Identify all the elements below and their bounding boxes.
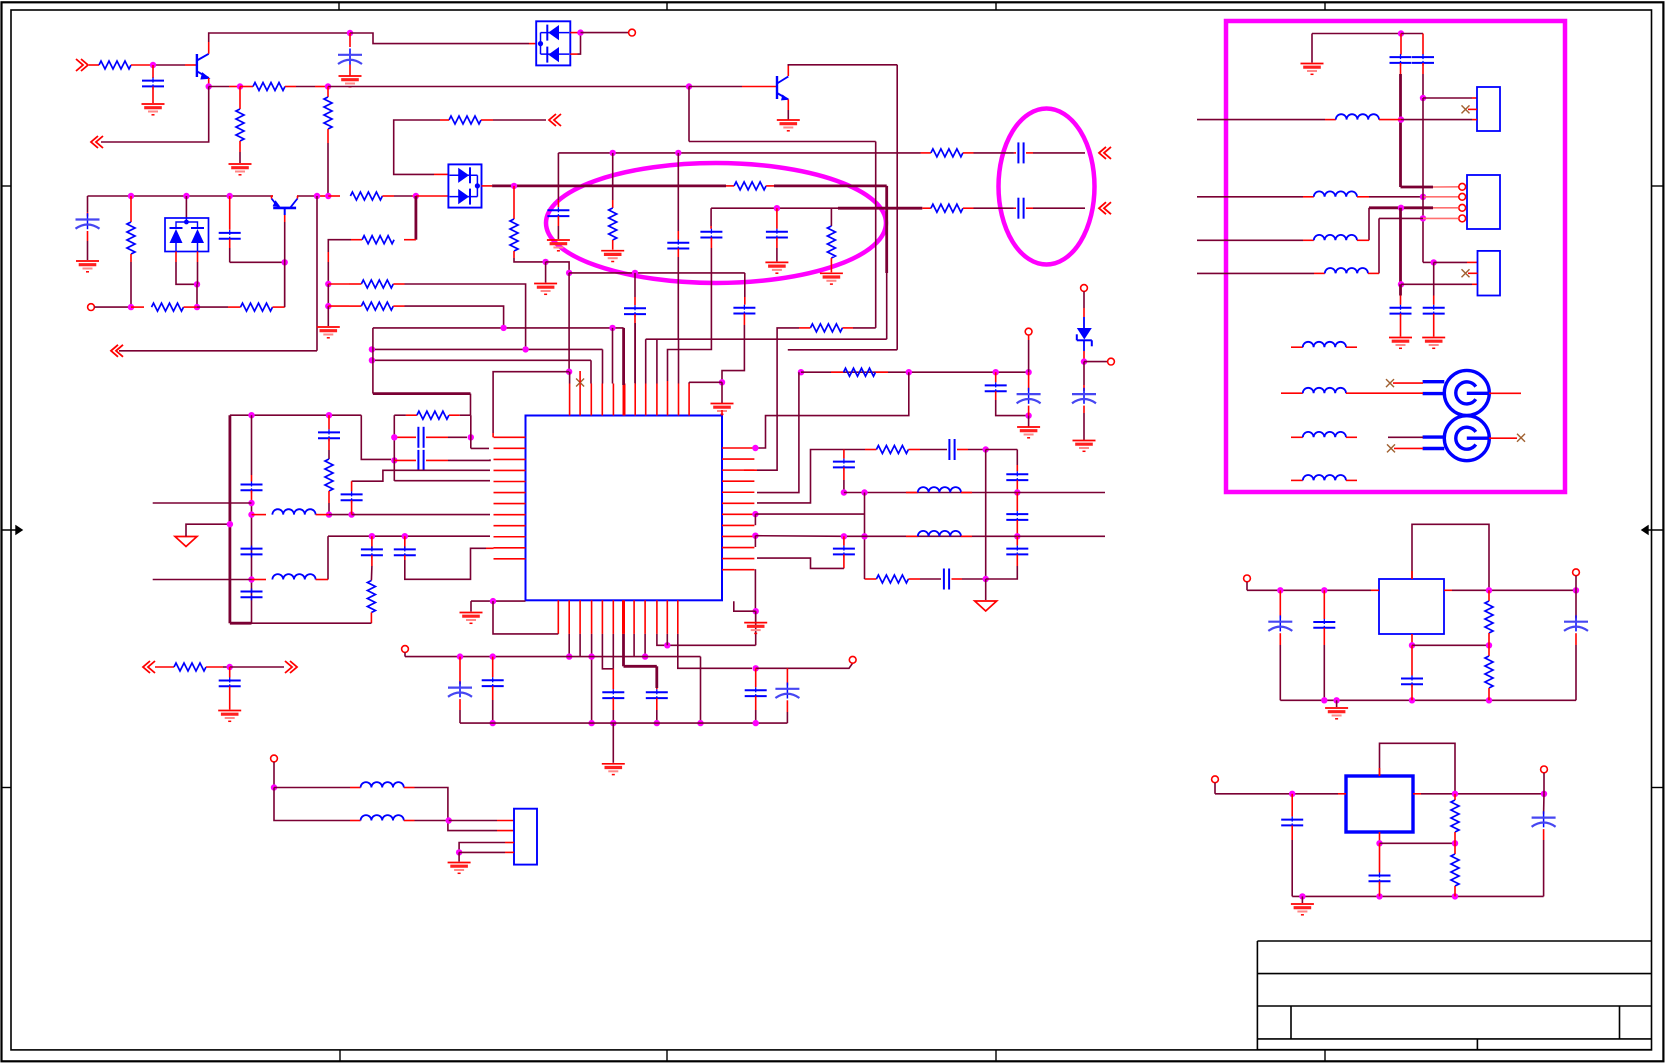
lead [1543,829,1545,840]
lead [328,195,340,197]
transistor Q2 NPN [776,76,778,99]
wire [1433,262,1435,295]
lead [1357,239,1369,241]
wire rail y=415.2 [230,414,361,416]
ground [1291,903,1314,905]
junction [446,817,452,823]
junction [719,379,725,385]
lead C2 top [349,33,351,47]
inductor L4 [272,574,315,579]
capacitor C5 [624,307,646,309]
lead U1 right pin 11 [722,558,754,560]
wire thick x=229.9 [228,415,231,623]
wire [328,450,330,459]
pin pad [629,29,636,36]
wire [1434,261,1467,263]
junction [753,665,759,671]
resistor R28 [1451,800,1459,832]
lead [1433,186,1459,188]
capacitor C3 polarized [87,213,89,229]
lead [876,371,889,373]
wire [1422,74,1424,98]
capacitor C27 [1006,473,1028,475]
wire gnd stem [545,262,547,283]
wire pin9 col [656,339,658,383]
wire to pin8 [352,514,490,516]
junction [1541,791,1547,797]
lead [350,787,361,789]
wire [710,208,712,226]
junction [490,598,496,604]
lead [1423,217,1459,219]
capacitor C28 [833,461,855,463]
capacitor C9 [547,209,569,211]
lead [1083,308,1085,317]
lead [1472,97,1477,99]
lead [1281,392,1303,394]
lead [755,696,757,710]
junction [248,412,254,418]
wire channel1 [844,492,1105,494]
lead [1323,590,1325,619]
lead [349,283,361,285]
lead [957,449,968,451]
wire [986,449,1018,451]
lead [513,251,515,258]
lead [1083,385,1085,391]
border arrow left [2,526,23,534]
junction [325,193,331,199]
lead [961,492,972,494]
junction [391,434,397,440]
lead [185,64,196,66]
wire pin12 col [688,382,690,383]
lead [1016,493,1018,512]
connector J1 [514,809,537,865]
wire [329,514,352,516]
lead [370,613,372,624]
junction [753,720,759,726]
lead U1 bottom pin 3 [579,600,581,634]
wire [394,120,440,174]
wire pin B12 [678,634,752,668]
wire [612,153,614,200]
junction [753,608,759,614]
ground [602,763,625,765]
junction [1014,533,1020,539]
wire [284,262,286,307]
junction [686,83,692,89]
lead U1 bottom pin 12 [677,600,679,634]
border tick top 4 [1324,3,1326,11]
wire Q3 base [284,222,286,262]
wire pin R1 net [758,372,909,448]
diode pack D2 internal wiring [176,222,198,228]
lead [921,152,931,154]
wire [87,241,89,260]
capacitor C23 [985,384,1007,386]
lead [1279,590,1281,618]
lead U1 right pin 6 [722,502,754,504]
wire pin R6 [757,450,865,503]
lead U1 left pin 11 [494,547,526,549]
resistor R7 [127,222,135,254]
resistor R30 [734,182,766,190]
lead [426,436,448,438]
junction [1376,840,1382,846]
junction [654,720,660,726]
coil T1 stubs [1423,380,1445,383]
lead U1 top corner pin [721,410,723,416]
wire [471,447,489,449]
lead pin [492,433,494,437]
wire to pin route [757,328,799,470]
lead [1016,555,1018,567]
lead U1 top pin 6 [623,384,625,416]
lead [1279,633,1281,645]
lead [743,314,745,325]
wire D1 out bottom [578,36,581,55]
lead [1400,63,1402,74]
wire thick x=1401 upper [1399,74,1402,187]
resistor R3 [236,109,244,141]
capacitor C10 [667,242,689,244]
lead [656,688,658,689]
resistor R14 [510,219,518,251]
wire [1401,119,1472,121]
inductor L5 [918,487,961,492]
capacitor C44 [1313,621,1335,623]
lead [229,86,240,88]
lead [1400,314,1402,337]
capacitor C2 polarized [349,49,351,65]
lead U1 top pin 9 [656,384,658,416]
lead [1488,688,1490,700]
wire row B [405,306,504,328]
wire [1311,34,1313,63]
lead [1444,589,1452,591]
lead C2 bottom [349,65,351,76]
wire thick corner to x=251.5 [230,622,252,625]
wire [734,601,756,611]
wire x=875.7 down [875,142,877,328]
junction [1333,697,1339,703]
wire [274,787,350,789]
inductor L7 [361,782,404,787]
pin pad [271,755,278,762]
junction [369,346,375,352]
junction [457,653,463,659]
capacitor C6 [733,307,755,309]
resistor R13 [241,303,273,311]
wire collector rail [209,33,350,42]
wire [1033,152,1085,154]
wire thick pin B7 [622,634,625,666]
wire [327,143,329,193]
lead [710,226,712,229]
capacitor C21 [394,548,416,550]
wire y=536.2 [328,535,490,537]
coil T2 stubs [1423,435,1445,438]
pin pad [1081,285,1088,292]
IC U1 [526,416,723,601]
lead [315,195,328,197]
wire [1365,392,1423,394]
lead [184,306,198,308]
wire [230,666,284,668]
connector P5 << [111,345,118,357]
junction [326,412,332,418]
ground [777,119,800,121]
resistor R10 [361,280,393,288]
lead [1016,520,1018,536]
junction [588,653,594,659]
wire [986,566,1018,579]
resistor R23 [844,368,876,376]
lead [252,579,267,581]
wire [1084,361,1107,363]
ground [339,75,362,77]
lead [315,86,328,88]
lead U1 left pin 7 [494,503,526,505]
wire [864,578,867,580]
lead Q3 e [272,196,274,199]
lead U1 left pin 6 [494,492,526,494]
wire [1543,773,1545,794]
diode pack D3 internal wiring [450,174,478,176]
wire [470,601,472,611]
ground [1422,337,1445,339]
pin pad [1025,328,1032,335]
wire [361,415,391,459]
junction [1025,369,1031,375]
lead [1083,406,1085,413]
inductor L15 [1303,432,1346,437]
wire [612,710,614,723]
capacitor C26 series [948,439,950,460]
connector P9 >> [290,661,297,673]
lead [406,414,417,416]
border tick bottom 4 [1324,1050,1326,1061]
lead [1433,314,1435,337]
wire [186,524,230,536]
junction [1376,893,1382,899]
wire [251,415,253,475]
lead [952,578,963,580]
lead [131,306,144,308]
wire [962,578,986,580]
lead U1 top pin 3 [590,384,592,416]
diode pack D1 internal wiring [541,32,570,34]
wire [1197,119,1325,121]
lead [1346,436,1357,438]
connector P8 << [143,661,150,673]
lead [1346,392,1365,394]
junction [500,325,506,331]
lead [1346,346,1357,348]
lead [229,196,231,230]
wire [920,578,941,580]
wire [493,601,558,634]
capacitor C13 series [417,427,419,448]
lead [865,449,876,451]
wire [546,262,570,273]
junction [632,270,638,276]
junction [1409,697,1415,703]
lead [1291,794,1293,817]
resistor R21 [367,581,375,613]
pin pad [1573,569,1580,576]
capacitor C12 [766,231,788,233]
diode pack D3 dual right [448,164,481,207]
wire [755,710,757,723]
diode pack D1 dual left [536,21,570,65]
lead [744,297,746,305]
wire [1197,196,1303,198]
lead [1422,63,1424,74]
lead [1488,633,1490,645]
wire pin1 column [569,372,571,384]
lead [634,314,636,323]
wire [1368,208,1370,241]
wire x=328 seg [327,536,329,579]
inductor L12 [1325,268,1368,273]
wire [1393,382,1423,384]
wire pin3 column [590,360,592,383]
resistor R12 [152,303,184,311]
lead [1423,196,1459,198]
lead [1026,152,1033,154]
lead [1454,843,1456,854]
junction [675,150,681,156]
highlight ellipse E1 [546,163,886,283]
lead [1357,196,1369,198]
resistor R20 [325,459,333,491]
title block [1257,940,1651,942]
lead [557,216,559,226]
connector P1 input >> [81,59,88,71]
junction [194,281,200,287]
lead U1 right pin 4 [722,480,754,482]
junction [752,511,758,517]
wire [1575,645,1577,700]
lead [677,249,679,257]
junction [369,357,375,363]
wire [721,382,723,403]
lead Q2 emitter [787,100,789,111]
capacitor C11 [700,231,722,233]
wire x=985.7 long vertical [985,450,987,580]
power arrow symbol [175,537,197,547]
lead U1 bottom pin 5 [601,600,603,634]
lead [229,239,231,248]
capacitor C24 polarized [1028,388,1030,404]
resistor R18 [827,226,835,258]
lead [393,283,404,285]
lead D3 out [482,185,493,187]
wire thick output rail y=185.9 [492,184,726,187]
wire [370,566,373,581]
wire [755,611,757,645]
lead [612,669,614,690]
wire channel2 [755,535,1105,538]
junction [566,369,572,375]
lead R4 bottom [327,129,329,143]
border tick top 2 [666,3,668,11]
wire [722,325,744,382]
junction [1420,215,1426,221]
junction [610,150,616,156]
lead [351,481,353,491]
junction [577,29,583,35]
capacitor C14 series [417,450,419,471]
junction [150,62,156,68]
junction [1409,642,1415,648]
lead [1472,283,1477,285]
wire pin4 feed [352,470,490,481]
wire [328,240,351,252]
inductor L13 [1303,342,1346,347]
junction [861,533,867,539]
wire Q2 collector [788,65,897,66]
wire row E y=360.3 [372,359,591,361]
lead [328,491,330,503]
junction [566,270,572,276]
lead U1 right pin 1 [722,447,754,449]
connector P2 << [91,136,98,148]
junction [1398,116,1404,122]
lead R3 bottom [239,141,241,152]
wire [1083,360,1085,362]
connector J2 [1467,175,1500,229]
wire thick pin 6 column [622,328,625,385]
junction [456,849,462,855]
junction [402,533,408,539]
wire [493,119,546,121]
wire [449,820,497,822]
junction [227,521,233,527]
junction [1420,95,1426,101]
wire [700,657,702,724]
junction [248,500,254,506]
lead [404,820,415,822]
wire [1033,207,1085,209]
junction [1025,412,1031,418]
wire [634,273,636,297]
capacitor C19 [341,493,363,495]
junction [325,83,331,89]
lead [1291,346,1303,348]
zener diode D4 [1083,317,1085,328]
resistor R4 [324,97,332,129]
lead U1 right pin 8 [722,524,754,526]
wire D1b stem [185,196,187,218]
pin pad [1541,766,1548,773]
junction [993,369,999,375]
lead [130,254,132,262]
wire pin R5 col [757,372,799,492]
lead [710,238,712,248]
lead [328,305,349,307]
ground [218,710,241,712]
lead [1016,536,1018,545]
lead [529,43,536,45]
wire stub y=503 [153,502,252,504]
wire [296,86,315,88]
lead [412,195,416,197]
junction [237,83,243,89]
lead U1 top pin 11 [678,384,680,416]
